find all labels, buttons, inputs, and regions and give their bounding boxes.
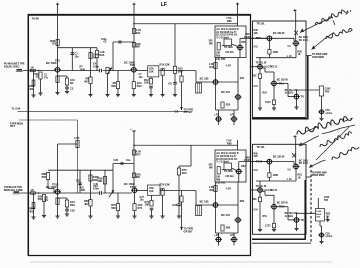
- label R91 value: [298, 176, 301, 179]
- capacitor C5: [119, 40, 121, 43]
- handwritten note mid-high 2: [320, 132, 352, 147]
- label R84: [240, 200, 245, 203]
- potentiometer VOL box LF: [148, 185, 161, 195]
- wire TR6 emitter down: [237, 99, 239, 110]
- terminal PU input: [16, 69, 23, 72]
- resistor R72 LF: [150, 200, 153, 206]
- label VOL: [149, 67, 155, 70]
- label c33: [216, 181, 226, 184]
- svg-text:2x 182L: 2x 182L: [285, 92, 294, 95]
- wire TR10 emitter: [273, 86, 275, 100]
- transistor TR16: [235, 218, 242, 223]
- wire R70 down: [117, 211, 119, 216]
- ground R71: [132, 216, 136, 218]
- label R14: [160, 62, 170, 66]
- transistor TR17: [266, 159, 273, 164]
- label R3b: [52, 43, 56, 46]
- label TR13 type: [124, 182, 135, 186]
- svg-text:C28: C28: [172, 203, 177, 207]
- junction: [133, 144, 135, 146]
- label R67: [80, 186, 85, 189]
- label R9: [113, 81, 117, 85]
- svg-text:R61: R61: [42, 175, 47, 179]
- handwritten period: [350, 10, 351, 11]
- svg-text:TR 3906: TR 3906: [224, 171, 233, 173]
- resistor R3 collector load: [56, 40, 59, 46]
- wire R4 top: [66, 76, 68, 78]
- label C4: [93, 62, 97, 66]
- label LP4: [230, 234, 235, 237]
- handwritten stroke accent: [333, 12, 349, 25]
- wire volume to driver: [159, 70, 196, 72]
- svg-text:TR: TR: [301, 96, 304, 99]
- label TR3 ref: [130, 63, 135, 67]
- label R64Ab: [29, 210, 34, 213]
- svg-text:R63: R63: [38, 198, 43, 201]
- label L100c: [316, 217, 320, 219]
- svg-text:2x 182L: 2x 182L: [285, 215, 294, 218]
- svg-text:10K: 10K: [144, 81, 149, 85]
- wire to output box TR7: [240, 37, 267, 39]
- svg-text:10u: 10u: [139, 76, 144, 79]
- label TR19 note: [264, 189, 277, 192]
- svg-text:100K: 100K: [273, 174, 279, 177]
- label TR11 type: [285, 92, 294, 95]
- wire TR11 collector rail: [57, 144, 59, 190]
- resistor R89 LF: [217, 167, 220, 175]
- wire TR4 emitter: [239, 50, 241, 58]
- svg-text:47u: 47u: [44, 76, 49, 79]
- label R30 value: [244, 36, 250, 39]
- label R6: [93, 54, 99, 57]
- label R12 value: [144, 81, 149, 85]
- wire corner: [264, 68, 266, 72]
- label TR20 ref: [279, 206, 285, 209]
- label LP2: [230, 114, 235, 117]
- label TR6 type: [221, 90, 230, 94]
- svg-text:+2mm: +2mm: [325, 235, 332, 238]
- wire to TR15 base: [196, 204, 213, 206]
- svg-text:1K: 1K: [31, 188, 34, 192]
- svg-text:C172: C172: [265, 224, 271, 227]
- label aux input: [12, 108, 21, 111]
- svg-text:L 10: L 10: [287, 178, 292, 181]
- wire V+ into output box bottom: [295, 138, 297, 164]
- wire output to power amp: [297, 89, 320, 91]
- wire TR1 emitter down: [57, 72, 59, 92]
- svg-text:EQUAL DISC: EQUAL DISC: [4, 65, 20, 68]
- ground R14: [161, 95, 165, 97]
- wire to TR10 base: [265, 71, 274, 73]
- annotation arrow 4: [309, 160, 326, 168]
- label mr: [209, 43, 213, 45]
- svg-text:O/P SKT: O/P SKT: [184, 231, 194, 233]
- resistor R94: [272, 223, 275, 228]
- label L10: [287, 55, 292, 58]
- label R77b: [136, 153, 141, 156]
- label R48b: [254, 33, 259, 35]
- label R54: [263, 92, 268, 95]
- wire V+ rail mid LF: [133, 131, 135, 187]
- label C1: [44, 74, 48, 77]
- title LF: [161, 2, 167, 8]
- ground TR1 emitter: [55, 93, 59, 95]
- wire C5 branch: [113, 41, 134, 43]
- wire C24 to TR13 base: [103, 192, 133, 194]
- capacitor C6: [149, 86, 153, 88]
- label R68 value: [84, 203, 89, 206]
- svg-text:+: +: [130, 127, 132, 131]
- wire V+ rail to AGC box: [237, 6, 239, 27]
- svg-text:25V: 25V: [316, 217, 320, 219]
- wire TR11 base drop: [287, 83, 289, 96]
- svg-text:R4: R4: [70, 81, 74, 85]
- svg-text:+2mm: +2mm: [325, 112, 332, 115]
- wire TR10 base drop: [273, 72, 275, 81]
- label tr3906: [224, 47, 233, 49]
- wire to LP101: [321, 226, 323, 233]
- label VOL value: [149, 70, 154, 73]
- svg-text:4.7K: 4.7K: [226, 188, 231, 191]
- ground R70: [116, 216, 120, 218]
- wire TR3 emitter: [133, 72, 135, 82]
- wire supply drop to driver: [174, 24, 176, 67]
- wire TR18 emitter down: [295, 169, 297, 181]
- arrow tape feed LF: [180, 227, 183, 230]
- svg-text:1K: 1K: [31, 65, 34, 69]
- capacitor C26 LF: [150, 208, 154, 210]
- svg-text:TR7: TR7: [256, 37, 261, 40]
- svg-text:R20: R20: [226, 104, 231, 107]
- transistor TR5: [212, 80, 219, 85]
- junction input: [38, 70, 40, 72]
- wire supply jog LF: [179, 165, 191, 167]
- label C3b: [75, 55, 80, 58]
- wire TR6 collector line: [237, 58, 239, 95]
- svg-text:R84: R84: [240, 200, 245, 203]
- svg-text:L100: L100: [316, 211, 322, 213]
- resistor R64 LF: [65, 200, 68, 207]
- capacitor C2 bypass: [65, 87, 69, 89]
- wire R92 down: [268, 177, 270, 181]
- label R66b: [93, 179, 98, 182]
- lamp LP2: [231, 117, 238, 122]
- resistor R42 TR5 load: [214, 63, 217, 69]
- wire bias rail L10: [256, 57, 296, 59]
- wire PU input to TR1: [23, 70, 56, 72]
- label TR18 type: [299, 159, 309, 162]
- svg-text:C8: C8: [168, 82, 172, 86]
- svg-text:TO TAPE: TO TAPE: [184, 108, 194, 111]
- potentiometer wiper arrow: [107, 68, 112, 75]
- label tape out: [184, 108, 194, 111]
- wire TR19 collector up: [259, 181, 261, 188]
- svg-text:150R: 150R: [244, 36, 250, 39]
- svg-text:C31 R50: C31 R50: [216, 58, 226, 61]
- label C24: [93, 184, 98, 188]
- wire TR15 emitter down: [215, 207, 217, 233]
- label junction cd: [175, 112, 179, 114]
- transistor TR1: [54, 68, 61, 73]
- handwritten stroke accent 2: [350, 30, 353, 32]
- label C23: [76, 180, 81, 183]
- wire TR19 out: [262, 190, 265, 192]
- wire D box to TR14: [232, 168, 237, 171]
- resistor R51: [268, 50, 271, 55]
- svg-text:TR 3906: TR 3906: [224, 47, 233, 49]
- ground LP100: [319, 118, 323, 120]
- wire aux input bus: [18, 111, 189, 113]
- label tape out LF: [184, 228, 194, 231]
- label rail plus LF: [130, 127, 132, 131]
- label C8: [168, 82, 172, 86]
- label tape out 2: [184, 112, 194, 114]
- label R13b: [136, 46, 140, 49]
- V+ terminal right: [236, 3, 239, 6]
- wire into TR9: [251, 66, 258, 68]
- svg-text:O/P SKT: O/P SKT: [184, 112, 194, 114]
- wire bias R top LF: [47, 171, 49, 174]
- label C22: [70, 209, 75, 213]
- label C5: [101, 38, 107, 41]
- lamp LP100 bottom: [318, 233, 324, 237]
- resistor R4 emitter: [65, 78, 68, 85]
- ground C2: [65, 92, 69, 94]
- wire R9A top: [96, 48, 98, 51]
- resistor R71 LF: [133, 204, 136, 211]
- ground R68: [88, 216, 92, 218]
- terminal LF input: [13, 191, 20, 194]
- label R62: [31, 188, 34, 192]
- label LP100b: [325, 112, 332, 115]
- label R80: [226, 227, 231, 230]
- wire LF input to TR11: [20, 192, 56, 194]
- label TR19 hdr: [256, 185, 268, 188]
- svg-text:C/D: C/D: [175, 112, 179, 114]
- label R54 LF: [263, 215, 268, 218]
- label R15: [178, 67, 183, 71]
- label half ohm: [288, 46, 292, 48]
- wire R51 down: [268, 54, 270, 58]
- svg-text:47u: 47u: [44, 199, 49, 202]
- resistor R6 feedback: [89, 53, 92, 59]
- svg-text:SKT: SKT: [10, 125, 15, 128]
- label R8 value: [84, 80, 89, 83]
- resistor R52: [258, 74, 261, 79]
- label TR7 type: [273, 32, 285, 35]
- label R9Ab: [99, 54, 104, 57]
- label R38: [226, 17, 231, 20]
- svg-text:R77: R77: [136, 153, 141, 156]
- label C44 LF: [254, 208, 259, 211]
- svg-text:TR 10L: TR 10L: [257, 146, 266, 149]
- label R75 value: [182, 171, 187, 175]
- label c342 LF: [324, 196, 330, 199]
- label 1r5: [208, 41, 213, 43]
- capacitor C28 LF: [177, 204, 181, 206]
- wire into TR17: [251, 161, 268, 163]
- rail tap mark: [132, 130, 135, 132]
- handwritten signature tail: [306, 118, 355, 134]
- wire C28 down: [178, 206, 180, 216]
- svg-text:BC 212: BC 212: [221, 213, 230, 217]
- svg-text:BC 182 W: BC 182 W: [273, 32, 285, 35]
- label agc line2: [216, 30, 236, 34]
- svg-text:R82: R82: [209, 189, 214, 192]
- wire TR8 emitter down: [295, 46, 297, 58]
- resistor R69 LF: [103, 177, 106, 185]
- label TR3 type: [124, 60, 135, 64]
- resistor R64A LF: [32, 203, 35, 209]
- svg-text:R52: R52: [252, 75, 257, 78]
- wire TR21 collector: [296, 213, 298, 217]
- svg-text:56K: 56K: [111, 84, 116, 88]
- label R77: [136, 151, 141, 154]
- svg-text:LP2: LP2: [230, 114, 235, 117]
- wire C3 column: [71, 48, 73, 71]
- svg-text:R10: R10: [137, 84, 142, 88]
- svg-text:10K: 10K: [149, 70, 154, 73]
- label R55: [325, 88, 331, 91]
- resistor R39: [217, 43, 220, 51]
- label R74: [160, 182, 170, 186]
- label TR12 ref: [52, 182, 59, 186]
- label C21: [44, 196, 49, 199]
- annotation arrow 3: [299, 136, 319, 146]
- label R63: [38, 195, 43, 198]
- wire R9A down: [96, 58, 98, 71]
- svg-text:3K9: 3K9: [178, 69, 183, 73]
- resistor R79 rail LF: [132, 173, 135, 178]
- wire TR11 collector: [296, 90, 298, 94]
- label to pwr amp bottom2: [312, 174, 325, 177]
- wire TR21 base: [288, 219, 294, 221]
- wire tape feed down: [181, 82, 183, 110]
- wire feed link LF: [48, 169, 113, 171]
- wire TR3 to volume: [136, 70, 148, 72]
- svg-text:BC 212L: BC 212L: [299, 162, 309, 165]
- handwritten note feedback: [326, 28, 352, 39]
- transistor TR7: [266, 36, 273, 41]
- label VOL LF: [149, 187, 155, 190]
- transistor TR14: [235, 169, 242, 174]
- wire volume to driver LF: [160, 190, 196, 192]
- label R15 value: [178, 69, 183, 73]
- wire LP101 down: [321, 237, 323, 241]
- svg-text:10K: 10K: [216, 53, 221, 55]
- capacitor C20 link: [121, 162, 123, 165]
- label TR21 type: [285, 215, 294, 218]
- label R69b: [98, 179, 103, 183]
- label agc LF line4: [216, 161, 229, 164]
- transistor TR20: [271, 204, 278, 209]
- label LP101b: [325, 235, 332, 238]
- resistor R13 rail: [132, 43, 135, 48]
- resistor R61 bias LF: [46, 173, 49, 180]
- label TR21 type2: [285, 212, 298, 215]
- wire C26 down: [151, 210, 153, 216]
- label R71: [138, 203, 143, 207]
- transistor TR4: [237, 45, 244, 50]
- svg-text:MR: MR: [136, 46, 140, 49]
- svg-text:4.7K: 4.7K: [74, 136, 80, 140]
- label half ohm LF: [288, 169, 292, 171]
- diode network box: [224, 39, 232, 46]
- wire R68 down: [90, 206, 92, 216]
- resistor R10 emitter: [132, 82, 135, 89]
- svg-text:TR12: TR12: [52, 182, 59, 186]
- label TR18 type2: [299, 162, 309, 165]
- label LP101: [325, 232, 330, 235]
- resistor R1 series: [30, 69, 35, 71]
- svg-text:76-06: 76-06: [32, 16, 40, 20]
- wire C6 down: [150, 88, 152, 95]
- label TR13 ref: [130, 185, 137, 189]
- wire TR12 emitter down: [57, 194, 59, 216]
- wire driver drop LF: [195, 191, 197, 206]
- label R39b: [216, 55, 221, 57]
- wire TR8 base drop: [293, 38, 295, 41]
- label R48b LF: [254, 156, 259, 158]
- transistor TR15: [212, 203, 219, 208]
- wire R15 to C8: [174, 73, 176, 82]
- label input LF line1: [4, 186, 22, 189]
- wire to output box TR17: [239, 161, 267, 163]
- wire R53 down: [273, 105, 275, 109]
- wire TR20 base drop: [273, 195, 275, 204]
- ground TR20: [272, 230, 276, 232]
- wire feedback column: [90, 48, 92, 77]
- label R64b: [70, 203, 75, 207]
- resistor R9: [116, 82, 119, 89]
- resistor R5A emitter: [56, 76, 59, 83]
- svg-text:TR 9: TR 9: [279, 82, 285, 85]
- label R52: [252, 75, 257, 78]
- label R93: [252, 198, 257, 201]
- wire V+ rail left: [57, 6, 59, 67]
- label R50 value: [298, 53, 301, 56]
- label R51: [273, 51, 279, 54]
- wire driver drop: [195, 71, 197, 83]
- wire TR19 emitter: [259, 192, 261, 197]
- wire R4A column: [33, 71, 35, 96]
- label R88b: [227, 142, 232, 145]
- ground C22: [65, 214, 69, 216]
- resistor R16: [180, 76, 183, 82]
- svg-text:BC 182: BC 182: [200, 200, 209, 204]
- label C27: [140, 196, 145, 199]
- wire R2 bottom: [40, 79, 42, 93]
- svg-text:R64: R64: [70, 203, 75, 207]
- label R67b: [80, 189, 86, 192]
- label input LF line2: [4, 189, 23, 192]
- label input 1 line 1: [4, 63, 25, 66]
- wire C2 down: [66, 89, 68, 92]
- label LP3: [215, 234, 220, 237]
- resistor R2 base: [39, 72, 42, 79]
- ground C6: [149, 95, 153, 97]
- wire R93 down: [259, 202, 261, 230]
- svg-text:56K: 56K: [98, 179, 103, 183]
- wire R64 to C22: [66, 207, 68, 209]
- label TR21 ref: [301, 219, 304, 222]
- svg-text:100n: 100n: [93, 187, 99, 191]
- wire R70 top: [117, 193, 119, 204]
- svg-text:ALC/REC B: ALC/REC B: [264, 189, 277, 192]
- label R53: [265, 101, 271, 104]
- output stage box top: [253, 21, 307, 118]
- wire V+ into output box top: [295, 12, 297, 41]
